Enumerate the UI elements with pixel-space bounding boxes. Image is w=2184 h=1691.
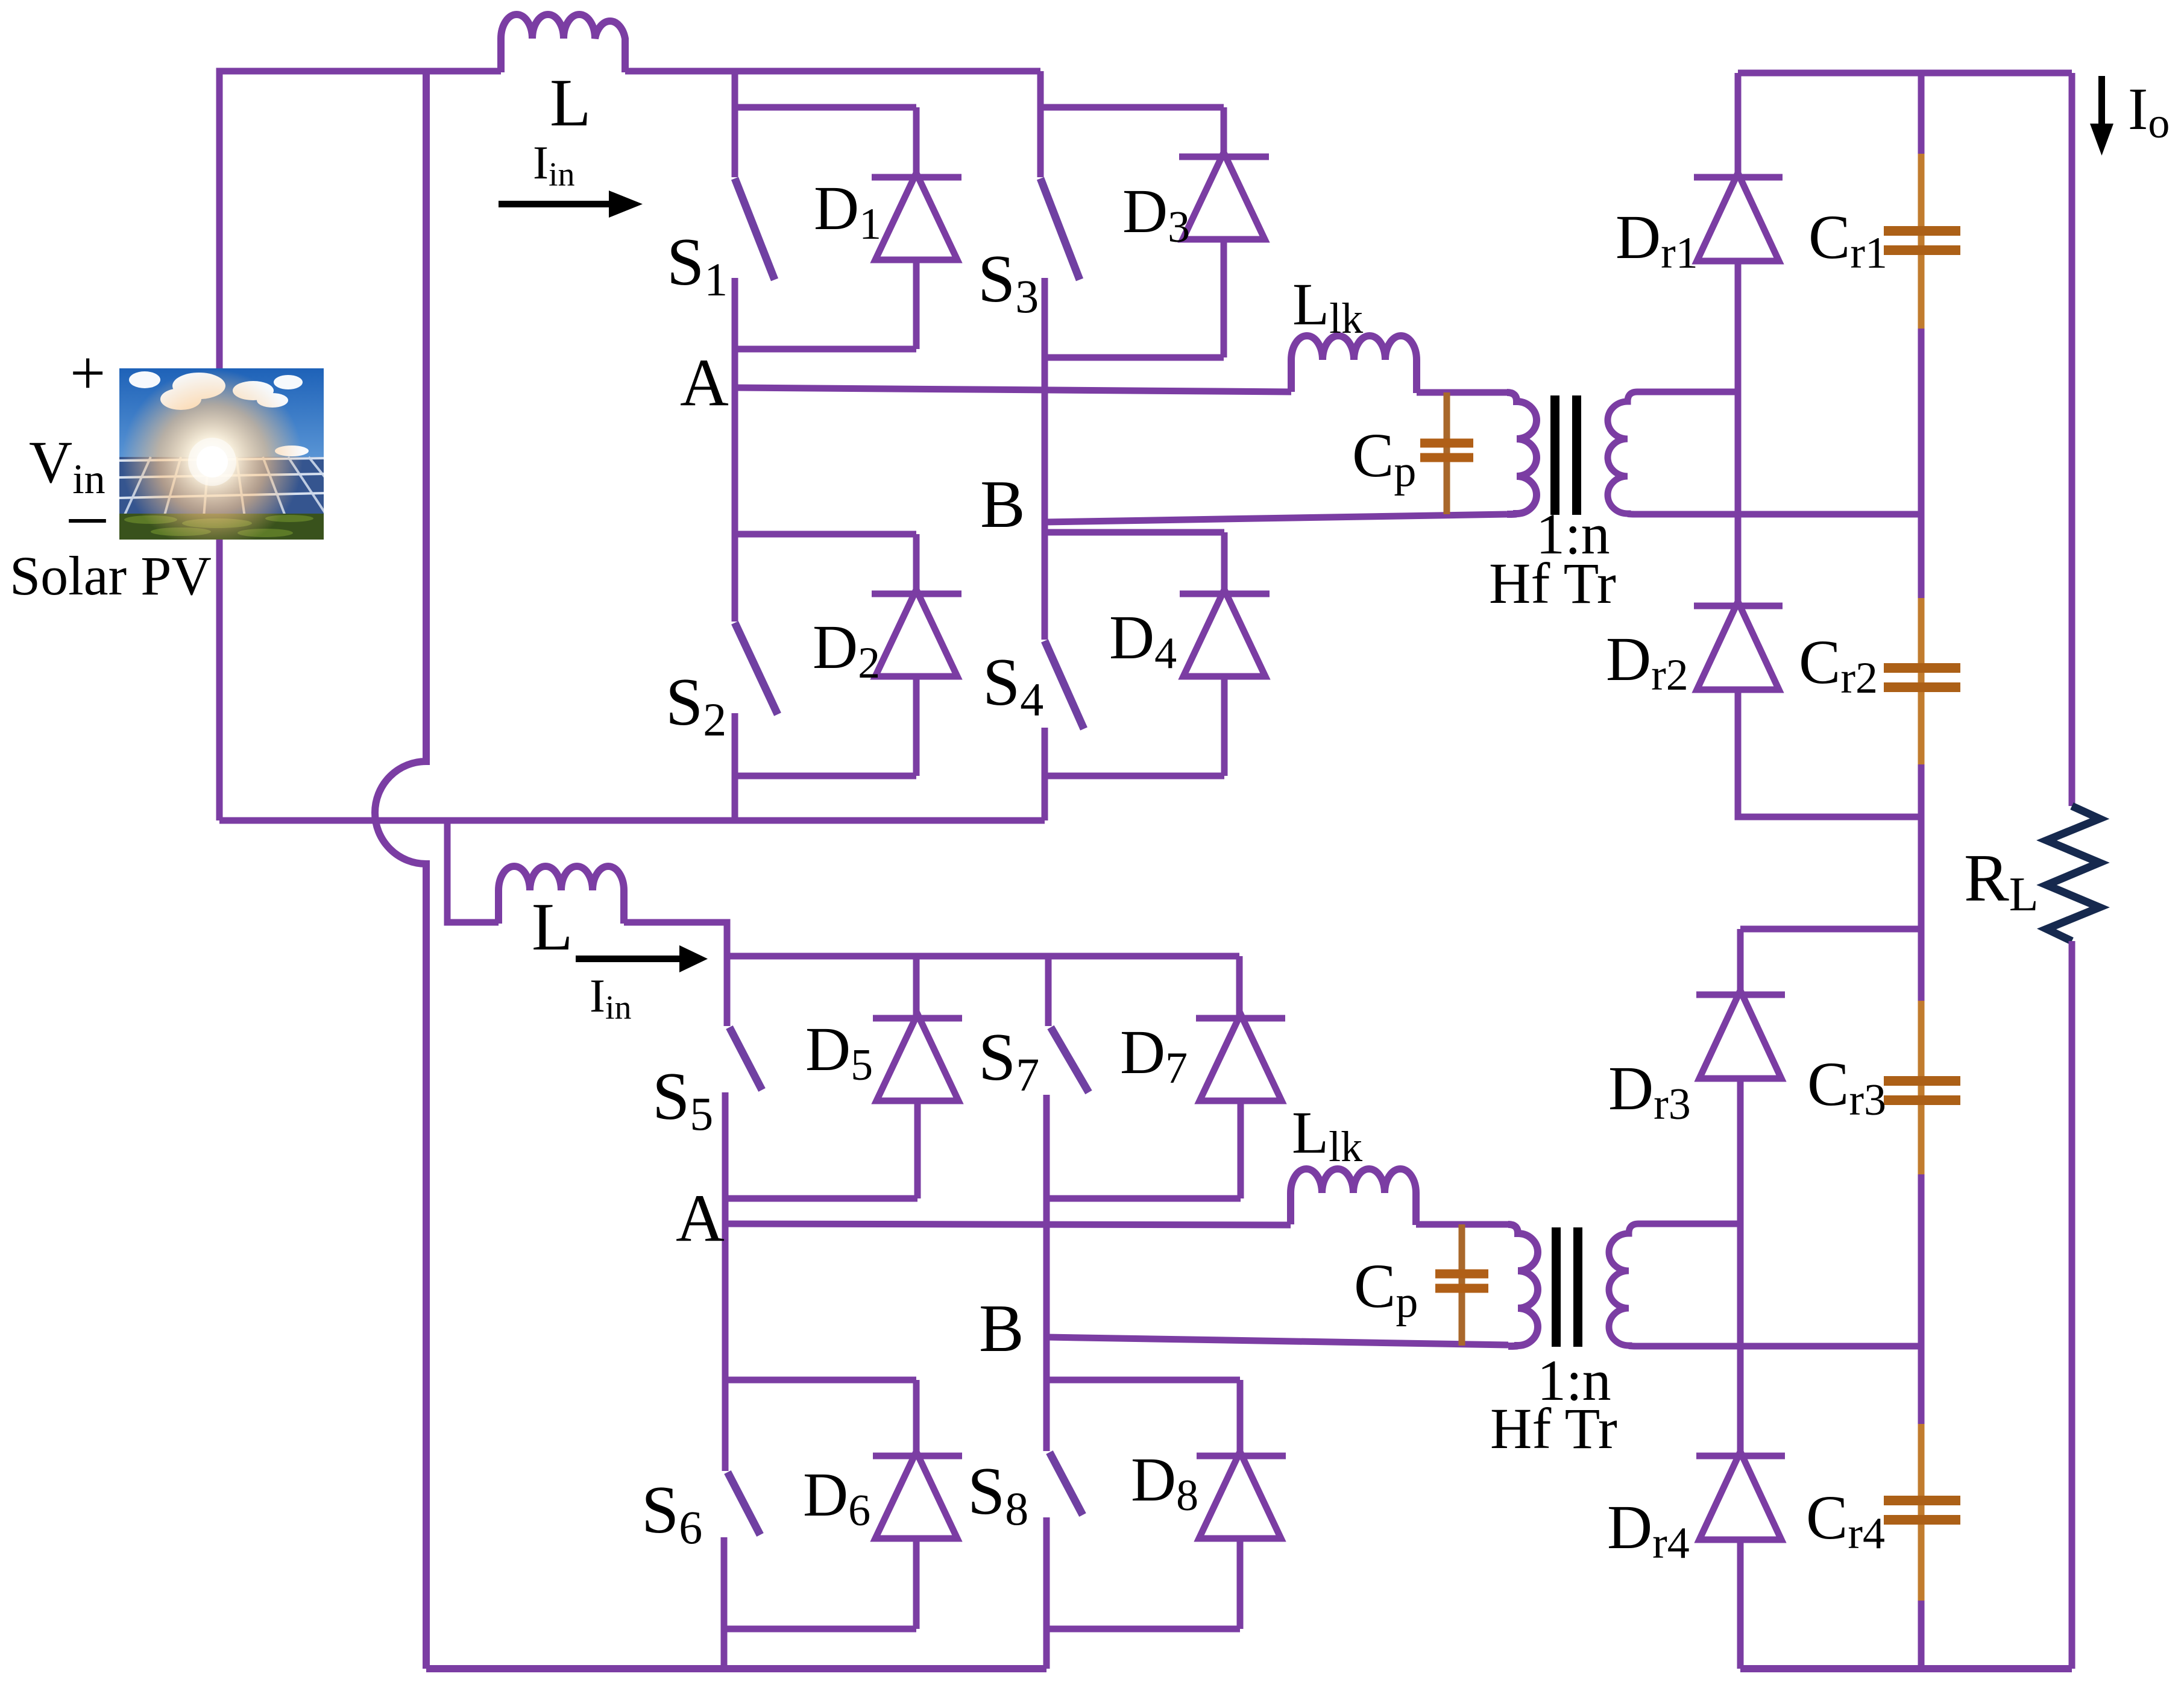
svg-text:B: B xyxy=(980,467,1025,542)
transformer primary coil (upper) xyxy=(1507,392,1537,514)
capacitor Cr2 xyxy=(1884,514,1960,817)
wire node B (upper) to transformer xyxy=(1045,514,1507,522)
wire PV- junction drop to lower L xyxy=(447,820,499,922)
wire lower L to bridge corner xyxy=(624,922,727,956)
arrow Iin (upper) xyxy=(499,191,643,218)
wire S3/D3 cell top xyxy=(1040,104,1224,111)
arrow Iin (lower) xyxy=(576,945,708,972)
wire S7-S8 leg (lower node B tee) xyxy=(1043,1095,1050,1451)
wire Llk to transformer primary (lower) xyxy=(1416,1221,1508,1228)
wire S8/D8 cell top xyxy=(1046,1377,1240,1384)
transformer core bars (upper) xyxy=(1550,395,1581,515)
wire S1-S2 leg (node A tee) xyxy=(732,278,738,622)
svg-text:A: A xyxy=(680,345,729,420)
wire D2 cathode lead xyxy=(913,534,920,594)
wire Dr1 cathode lead xyxy=(1735,73,1742,177)
wire D8 cathode lead xyxy=(1237,1380,1244,1456)
switch S7 blade xyxy=(1051,1027,1089,1092)
svg-text:L: L xyxy=(532,890,573,965)
wire doubler midpoint column xyxy=(1918,817,1925,929)
switch S3 upper leg xyxy=(1037,71,1044,177)
switch S2 blade xyxy=(735,623,778,714)
diode D6 xyxy=(873,1452,962,1629)
switch S5 blade xyxy=(729,1027,762,1090)
wire lower rectifier top link xyxy=(1740,926,1921,933)
wire rectifier bottom output rail xyxy=(1740,1665,2072,1672)
solar PV photo xyxy=(119,368,344,550)
wire lower bridge bottom rail xyxy=(426,1665,1046,1672)
switch S6 blade xyxy=(728,1472,760,1535)
wire D6 cathode lead xyxy=(913,1380,920,1456)
wire rectifier top output rail xyxy=(1738,70,2072,77)
wire S8/D8 cell bottom xyxy=(1046,1626,1240,1633)
switch S3 blade xyxy=(1040,178,1080,280)
wire S2/D2 cell bottom xyxy=(735,773,916,779)
diode Dr4 xyxy=(1696,1452,1785,1540)
wire S1/D1 cell top xyxy=(735,104,916,111)
capacitor Cp (upper) xyxy=(1420,392,1473,514)
capacitor Cr1 xyxy=(1884,73,1960,514)
diode Dr2 xyxy=(1694,602,1783,690)
wire S3-S4 leg (node B tee) xyxy=(1042,278,1048,640)
wire D4 cathode lead xyxy=(1221,532,1228,594)
switch S1 upper leg xyxy=(732,71,738,177)
diode D8 xyxy=(1197,1452,1286,1629)
switch S4 blade xyxy=(1045,641,1084,729)
wire S5-S6 leg (lower node A tee) xyxy=(722,1092,729,1471)
diode D1 xyxy=(872,173,961,349)
svg-text:A: A xyxy=(676,1181,725,1256)
wire S2 lower leg xyxy=(732,713,738,820)
wire D1 cathode lead xyxy=(913,107,920,177)
wire S4/D4 cell bottom xyxy=(1045,773,1224,779)
wire S6 lower leg xyxy=(721,1537,728,1669)
wire PV- bottom lead xyxy=(216,540,223,820)
wire PV- rail (upper bridge bottom rail) xyxy=(219,817,1045,824)
wire output right rail (top) xyxy=(2069,73,2075,806)
diode D4 xyxy=(1180,590,1270,776)
transformer secondary coil (lower) xyxy=(1609,1224,1921,1346)
wire S6/D6 cell bottom xyxy=(724,1626,916,1633)
switch S8 blade xyxy=(1050,1452,1083,1515)
wire Dr2 anode to doubler midpoint xyxy=(1738,690,1921,817)
wire S8 lower leg xyxy=(1043,1517,1050,1669)
wire node A (upper) xyxy=(735,388,1291,392)
inductor L (lower input) xyxy=(499,866,624,924)
transformer primary coil (lower) xyxy=(1508,1224,1538,1346)
svg-text:–: – xyxy=(69,473,106,553)
capacitor Cr4 xyxy=(1884,1346,1960,1669)
wire S1/D1 cell bottom xyxy=(735,346,916,353)
inductor Llk (upper leakage) xyxy=(1291,336,1417,393)
wire S5/D5 cell bottom xyxy=(725,1195,917,1202)
wire S6/D6 cell top xyxy=(725,1377,916,1384)
wire Dr3 cathode lead xyxy=(1737,929,1744,995)
wire S2/D2 cell top xyxy=(735,531,916,538)
switch S7 upper leg xyxy=(1045,956,1052,1026)
transformer core bars (lower) xyxy=(1552,1227,1582,1347)
wire output right rail (bottom) xyxy=(2069,941,2075,1669)
wire PV+ down branch with hop xyxy=(375,71,426,1669)
capacitor Cp (lower) xyxy=(1435,1224,1488,1346)
wire S4 lower leg xyxy=(1042,728,1048,820)
resistor RL xyxy=(2047,806,2100,941)
switch S1 blade xyxy=(735,178,775,280)
wire Dr3 anode / Dr4 cathode column xyxy=(1737,1079,1744,1456)
wire lower bridge top rail xyxy=(727,953,1239,960)
wire Dr1 anode / Dr2 cathode column xyxy=(1735,261,1742,606)
switch S5 upper leg xyxy=(724,956,731,1026)
svg-text:Hf Tr: Hf Tr xyxy=(1490,1396,1617,1461)
wire PV+ top lead xyxy=(219,71,501,368)
wire Llk to transformer primary (upper) xyxy=(1417,389,1507,396)
diode D3 xyxy=(1179,153,1269,357)
wire S7/D7 cell bottom xyxy=(1046,1195,1241,1202)
wire D5 cathode lead xyxy=(913,956,920,1018)
inductor L (upper input) xyxy=(501,14,625,72)
diode D2 xyxy=(872,590,961,776)
wire S3/D3 cell bottom xyxy=(1045,354,1224,361)
svg-text:L: L xyxy=(550,66,591,140)
wire D7 cathode lead xyxy=(1236,956,1243,1018)
inductor Llk (lower leakage) xyxy=(1291,1169,1416,1225)
diode Dr3 xyxy=(1696,990,1785,1079)
capacitor Cr3 xyxy=(1884,929,1960,1346)
svg-text:Solar PV: Solar PV xyxy=(10,545,212,606)
transformer secondary coil (upper) xyxy=(1608,392,1921,514)
diode Dr1 xyxy=(1694,173,1783,261)
arrow Io xyxy=(2090,76,2113,156)
svg-text:Hf Tr: Hf Tr xyxy=(1489,551,1616,616)
wire Dr4 anode lead xyxy=(1737,1540,1744,1669)
wire top rail to bridge xyxy=(625,68,1040,75)
svg-text:B: B xyxy=(979,1291,1024,1366)
wire node A (lower) xyxy=(725,1224,1291,1225)
diode D5 xyxy=(873,1014,962,1198)
wire S4/D4 cell top xyxy=(1045,529,1224,536)
diode D7 xyxy=(1196,1014,1285,1198)
svg-text:+: + xyxy=(70,338,105,408)
wire D3 cathode lead xyxy=(1221,107,1227,157)
wire node B (lower) to transformer xyxy=(1046,1337,1508,1345)
